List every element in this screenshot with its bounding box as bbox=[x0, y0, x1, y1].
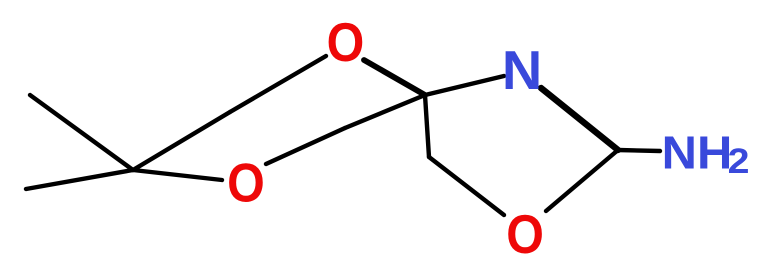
wire bond CH2-O(top) bbox=[230, 56, 326, 112]
wire bond C(mid)-C(spiro) bbox=[345, 95, 425, 128]
wire bond C(gem)-O(ester) bbox=[133, 170, 222, 180]
wire bond O(top)-C(spiro) bbox=[364, 60, 425, 95]
wire double bond N3=C2 (merged pair) bbox=[541, 88, 618, 150]
wire bond C(spiro)-N3 bbox=[425, 76, 504, 95]
wire bond O(ester)-C(mid) bbox=[266, 128, 345, 164]
svg-text:NH: NH bbox=[662, 128, 733, 179]
svg-text:O: O bbox=[327, 11, 365, 72]
svg-text:O: O bbox=[506, 203, 544, 264]
wire bond C2-NH2 bbox=[618, 150, 660, 151]
wire methyl-upper bond CH3-C bbox=[30, 95, 133, 170]
svg-text:2: 2 bbox=[728, 141, 750, 180]
wire bond C5-O1 bbox=[429, 157, 504, 215]
wire methyl-lower bond CH3-C bbox=[26, 170, 133, 189]
wire bond C(spiro)-C5 bbox=[425, 95, 429, 157]
wire bond C2-O1 bbox=[546, 150, 618, 211]
svg-text:N: N bbox=[502, 40, 542, 101]
wire bond C(gem)-CH2 bbox=[133, 112, 230, 170]
svg-text:O: O bbox=[227, 152, 265, 213]
